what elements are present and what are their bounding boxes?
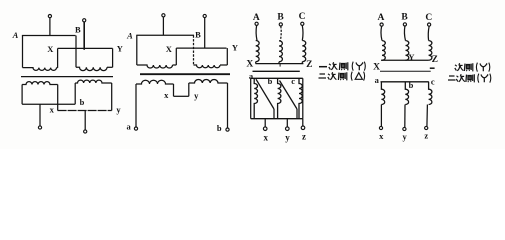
wire: bank2 terminal1 drop bbox=[162, 17, 164, 35]
delta terminal y (circle) bbox=[286, 127, 290, 131]
Y-Y secondary terminal y (circle) bbox=[403, 127, 406, 130]
bank2 secondary terminal b (circle) bbox=[226, 128, 229, 131]
wire: secondary c lead to terminal z bbox=[426, 105, 429, 128]
svg-text:Y: Y bbox=[232, 42, 238, 52]
text: secondary side (D) label - 次 bbox=[328, 72, 337, 80]
text: right secondary (Y) - 二 bbox=[449, 75, 455, 77]
text: right primary (Y) - ） bbox=[489, 63, 490, 72]
wire: primary top bus A bbox=[22, 35, 76, 37]
wire: bank2 link from top bus to winding2 start (dashed) bbox=[193, 35, 195, 65]
delta terminal x (circle) bbox=[263, 127, 267, 131]
svg-text:Z: Z bbox=[306, 60, 312, 70]
Y-Y primary terminal A (circle) bbox=[380, 23, 383, 26]
wire: winding1 bottom to right corner bbox=[57, 67, 58, 69]
wire: X-B-Y horizontal bus bbox=[58, 47, 113, 49]
wire: delta diagonal b-c bbox=[280, 81, 298, 110]
text: primary side (Y) label - 側 bbox=[338, 63, 341, 70]
wire: delta right edge bbox=[302, 78, 304, 118]
wire: Y-Y lead B bbox=[404, 26, 405, 40]
text: right primary (Y) - 丫 bbox=[480, 64, 487, 72]
secondary winding 2 (coil t2) bbox=[75, 80, 112, 83]
text: right primary (Y) - （ bbox=[476, 63, 477, 72]
wire: bank2 X-B-Y bus bbox=[176, 47, 226, 49]
text: secondary side (D) label - △ bbox=[355, 73, 362, 80]
wire: winding C bottom to neutral bbox=[301, 62, 303, 64]
wire: bank2 riser winding1 finish X bbox=[175, 48, 177, 65]
core separator group 4 bbox=[380, 70, 431, 72]
text: primary side (Y) label - 一 bbox=[319, 66, 327, 68]
wire: diagonal a-b drop to bottom bbox=[273, 109, 275, 119]
wire: Y-Y lead C bbox=[427, 26, 430, 40]
wire: lead A to winding bbox=[255, 26, 258, 41]
transformer bank 1 line terminal 1 (circle) bbox=[48, 15, 51, 18]
svg-text:B: B bbox=[195, 29, 201, 39]
transformer bank 2 line terminal 2 (circle) bbox=[203, 14, 206, 17]
svg-text:X: X bbox=[373, 62, 380, 72]
svg-text:b: b bbox=[409, 80, 414, 90]
svg-text:A: A bbox=[126, 30, 133, 40]
svg-text:A: A bbox=[377, 13, 384, 23]
wire: secondary terminal 2 drop bbox=[84, 111, 86, 130]
wire: Y-Y primary neutral bus bbox=[381, 59, 429, 61]
delta winding b (vertical coil) bbox=[278, 78, 281, 118]
secondary line terminal 1 (circle) bbox=[38, 126, 41, 129]
svg-text:x: x bbox=[164, 90, 169, 100]
svg-text:C: C bbox=[299, 12, 306, 22]
wire: winding A bottom to neutral bbox=[255, 62, 257, 64]
svg-text:z: z bbox=[302, 132, 306, 142]
wire: winding B bottom to neutral bbox=[278, 62, 280, 64]
wire: winding2 end to right edge bbox=[107, 66, 113, 68]
wire: Y-Y secondary top bus bbox=[381, 81, 429, 83]
svg-text:a: a bbox=[126, 122, 131, 132]
secondary line terminal 2 (circle) bbox=[84, 130, 87, 133]
svg-text:c: c bbox=[431, 77, 435, 87]
wire: riser from winding1 end X up to bus bbox=[57, 48, 59, 68]
wire: bank2 left edge secondary to terminal a bbox=[135, 84, 137, 127]
core separator group 3 bbox=[253, 70, 300, 72]
svg-text:b: b bbox=[268, 76, 273, 86]
bank2 secondary terminal a (circle) bbox=[134, 127, 137, 130]
wire: lead B to winding bbox=[279, 26, 282, 40]
delta winding a (vertical coil) bbox=[254, 78, 257, 118]
transformer bank 2 line terminal 1 (circle) bbox=[162, 14, 165, 17]
wire: lead C to winding bbox=[301, 26, 304, 41]
text: right primary (Y) - 次 bbox=[455, 63, 464, 71]
wire: bank2 right edge primary loop 2 bbox=[226, 48, 228, 65]
svg-text:B: B bbox=[401, 12, 408, 22]
wire: Y-Y lead A bbox=[381, 26, 382, 40]
wire: bank2 jumper down x bbox=[173, 84, 175, 96]
wire: delta bottom bus bbox=[251, 118, 303, 120]
Y primary terminal C (circle) bbox=[301, 22, 304, 25]
text: secondary side (D) label - ( bbox=[351, 72, 352, 81]
svg-text:A: A bbox=[253, 13, 260, 23]
Y-Y primary winding C (vertical coil) bbox=[429, 41, 432, 61]
wire: secondary a lead to terminal x bbox=[380, 105, 382, 128]
svg-text:Y: Y bbox=[408, 52, 414, 62]
svg-text:A: A bbox=[12, 30, 19, 40]
wire: stub below neutral at winding B bbox=[279, 64, 281, 67]
text: right secondary (Y) - ( bbox=[478, 74, 479, 83]
core separator bank 2 bbox=[140, 73, 230, 75]
bank2 primary winding 1 (coil) bbox=[137, 65, 173, 68]
svg-text:c: c bbox=[291, 76, 295, 86]
text: primary side (Y) label - 丫 bbox=[356, 63, 363, 71]
svg-text:x: x bbox=[379, 131, 384, 141]
wire: delta diagonal a-b bbox=[256, 79, 274, 109]
core separator bank 1 bbox=[21, 76, 113, 78]
text: right secondary (Y) - ) bbox=[490, 74, 491, 83]
svg-text:Z: Z bbox=[432, 55, 438, 65]
wire: left edge bank2 primary loop 1 bbox=[136, 35, 138, 65]
Y primary winding B (vertical coil) bbox=[279, 41, 282, 62]
wire: bank2 jumper up y bbox=[188, 83, 190, 96]
Y-Y secondary winding a (vertical coil) bbox=[381, 82, 384, 105]
text: secondary side (D) label - ) bbox=[364, 72, 365, 81]
svg-text:a: a bbox=[249, 71, 254, 81]
wire: bank2 winding1 bottom corner bbox=[173, 64, 177, 66]
wire: riser to secondary winding 2 start b bbox=[74, 83, 76, 104]
text: primary side (Y) label - 次 bbox=[329, 62, 338, 70]
svg-text:Y: Y bbox=[117, 44, 123, 54]
Y primary winding A (vertical coil) bbox=[256, 41, 259, 62]
svg-text:B: B bbox=[75, 25, 81, 35]
wire: terminal2 drop to X-Y bus bbox=[83, 22, 85, 50]
wire: bank2 jumper bottom x-y bbox=[174, 95, 189, 97]
bank2 secondary winding 1 (coil) bbox=[136, 80, 174, 84]
wire: bank2 primary top bus bbox=[136, 34, 194, 36]
svg-text:a: a bbox=[375, 75, 380, 85]
wire: bank2 right edge secondary to terminal b bbox=[227, 83, 229, 128]
wire: winding1 finish drop to lower bus bbox=[57, 85, 59, 111]
wire: Y primary neutral bus X-Z bbox=[256, 63, 304, 65]
text: right secondary (Y) - 丫 bbox=[481, 75, 488, 83]
svg-text:B: B bbox=[277, 12, 284, 22]
wire: delta terminal y drop bbox=[286, 119, 288, 127]
text: right primary (Y) stray dash bbox=[430, 67, 435, 69]
text: right secondary (Y) - 側 bbox=[465, 75, 468, 82]
wire: delta top bus bbox=[251, 77, 303, 79]
wire: delta terminal z drop bbox=[302, 119, 304, 127]
wire: secondary lower bus x-y bbox=[58, 110, 112, 112]
delta winding c (vertical coil) bbox=[299, 78, 302, 118]
wire: bank2 terminal2 drop bbox=[204, 18, 206, 48]
primary winding 1 (coil T1) bbox=[23, 68, 57, 71]
svg-text:y: y bbox=[402, 132, 407, 142]
wire: terminal1 drop to primary top bus bbox=[49, 18, 51, 36]
svg-text:X: X bbox=[166, 44, 173, 54]
Y-Y secondary terminal x (circle) bbox=[379, 126, 382, 129]
Y-Y secondary terminal z (circle) bbox=[425, 126, 428, 129]
Y-Y primary terminal B (circle) bbox=[403, 23, 406, 26]
bank2 primary winding 2 (coil) bbox=[194, 65, 221, 68]
wire: secondary terminal 1 drop bbox=[39, 104, 41, 126]
Y primary terminal B (circle) bbox=[279, 23, 282, 26]
Y primary terminal A (circle) bbox=[255, 22, 258, 25]
primary winding 2 (coil T2) bbox=[76, 67, 107, 70]
wire: left edge of primary winding 1 loop bbox=[22, 36, 24, 68]
wire: secondary bottom bus bbox=[22, 103, 75, 105]
Y primary winding C (vertical coil) bbox=[302, 41, 305, 62]
wire: secondary b lead to terminal y bbox=[404, 105, 406, 128]
svg-text:b: b bbox=[80, 97, 85, 107]
wire: right edge secondary loop 2 bbox=[111, 83, 113, 111]
wire: vertical link from top bus down to winding 2 start bbox=[75, 36, 77, 68]
svg-text:y: y bbox=[194, 90, 199, 100]
Y-Y secondary winding c (vertical coil) bbox=[429, 82, 432, 105]
wire: left edge secondary loop 1 bbox=[21, 85, 23, 105]
Y-Y primary terminal C (circle) bbox=[428, 23, 431, 26]
wire: delta terminal x drop bbox=[264, 119, 266, 127]
Y-Y secondary winding b (vertical coil) bbox=[405, 82, 408, 105]
text: secondary side (D) label - 側 bbox=[337, 73, 340, 80]
Y-Y primary winding B (vertical coil) bbox=[406, 41, 409, 61]
svg-text:x: x bbox=[50, 105, 55, 115]
svg-text:y: y bbox=[116, 105, 121, 115]
svg-text:X: X bbox=[246, 60, 253, 70]
svg-text:z: z bbox=[424, 131, 428, 141]
text: right secondary (Y) - 次 bbox=[456, 74, 465, 82]
secondary winding 1 (coil t1) bbox=[22, 82, 58, 85]
bank2 secondary winding 2 (coil) bbox=[189, 79, 228, 83]
svg-text:C: C bbox=[425, 13, 432, 23]
text: primary side (Y) label - ） bbox=[364, 62, 365, 71]
wire: bank2 winding2 bottom right corner bbox=[220, 64, 227, 66]
svg-text:y: y bbox=[285, 133, 290, 143]
Y-Y primary winding A (vertical coil) bbox=[382, 41, 385, 61]
svg-text:X: X bbox=[47, 44, 54, 54]
wire: diagonal b-c drop to bottom bbox=[296, 109, 298, 119]
wire: delta left edge bbox=[250, 78, 252, 118]
text: primary side (Y) label - （ bbox=[352, 62, 353, 71]
delta terminal z (circle) bbox=[301, 126, 305, 130]
text: right primary (Y) - 側 bbox=[463, 64, 466, 71]
wire: right edge of primary winding 2 loop bbox=[112, 48, 114, 67]
text: secondary side (D) label - 二 bbox=[320, 73, 326, 75]
svg-text:x: x bbox=[264, 132, 269, 142]
svg-text:b: b bbox=[217, 123, 222, 133]
transformer bank 1 line terminal 2 (circle) bbox=[83, 19, 86, 22]
